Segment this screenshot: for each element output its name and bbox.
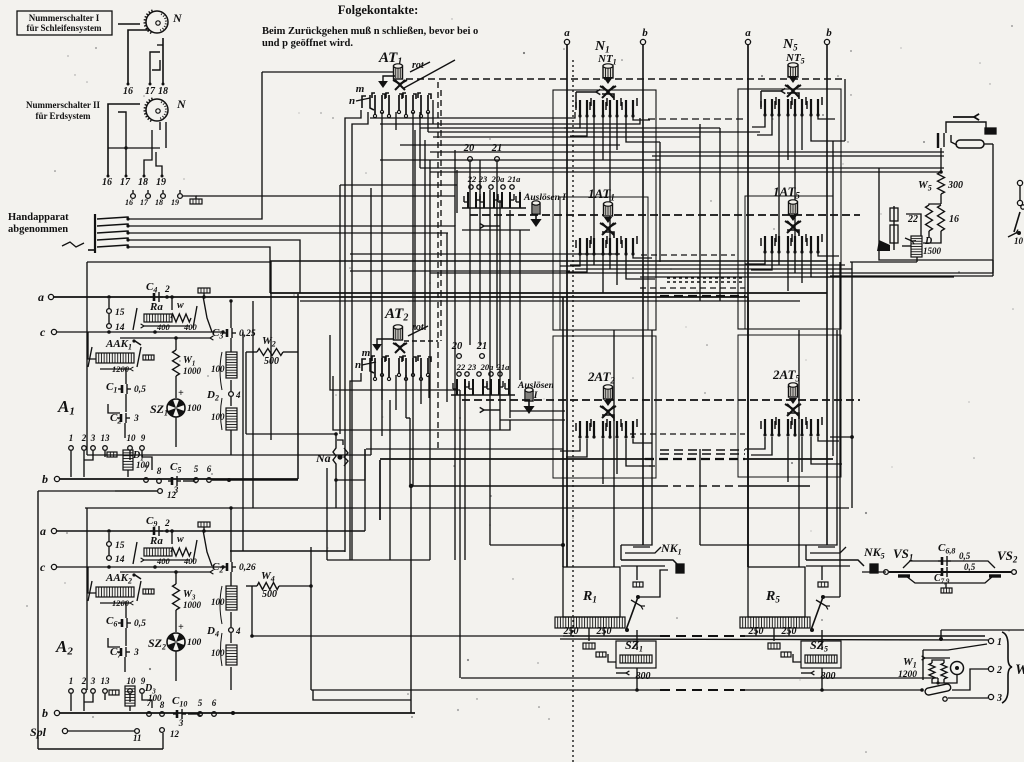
bus y690 — [311, 689, 922, 691]
relay D 1500 — [905, 236, 942, 257]
svg-text:W5: W5 — [918, 179, 932, 193]
outer frame left — [38, 491, 163, 749]
svg-text:AT2: AT2 — [384, 306, 408, 324]
labels 22 23 20a 21a (bank I) — [467, 174, 521, 184]
induction coil Ra — [133, 295, 198, 332]
svg-text:VS2: VS2 — [997, 548, 1018, 565]
label N5 — [782, 37, 798, 53]
svg-text:R1: R1 — [582, 589, 597, 605]
relay 1AT5 — [761, 184, 822, 254]
note text line1 — [262, 26, 478, 37]
svg-text:C3: C3 — [212, 327, 223, 341]
switch blade W — [920, 683, 988, 701]
svg-text:2AT5: 2AT5 — [772, 367, 800, 384]
svg-text:1AT5: 1AT5 — [773, 184, 800, 201]
box label Nummerschalter I — [17, 11, 112, 35]
contact bank N5 — [761, 93, 822, 117]
receiver box top — [879, 167, 944, 169]
svg-text:Ra: Ra — [149, 301, 163, 313]
label Ausloesen II — [517, 381, 554, 401]
terminals 20 21 (bank II) — [451, 341, 488, 358]
bus y261 — [270, 260, 827, 262]
rectifier D2 — [206, 352, 241, 455]
terminal a (A2) — [40, 524, 365, 538]
contact NK1 — [621, 541, 684, 587]
lamp SZ1 — [150, 388, 202, 447]
svg-text:b: b — [826, 27, 832, 39]
frame column 1 lower — [553, 336, 656, 478]
svg-text:n: n — [355, 359, 361, 371]
svg-text:N: N — [172, 11, 183, 25]
label VS2 — [997, 548, 1018, 565]
wire top right — [946, 122, 986, 133]
bus y271 — [350, 270, 570, 272]
svg-text:4: 4 — [235, 390, 241, 400]
label N1 — [594, 39, 610, 55]
svg-text:7: 7 — [147, 698, 152, 708]
svg-text:100: 100 — [187, 404, 202, 414]
vertical x243 — [242, 332, 244, 551]
svg-text:21a: 21a — [507, 174, 522, 184]
wire AT2 bank jog — [406, 417, 410, 419]
terminal labels 16 17 18 19 — [102, 177, 166, 188]
svg-text:5: 5 — [198, 698, 203, 708]
arrester upper branch — [903, 561, 995, 572]
wires below AT1 — [345, 100, 433, 560]
terminal a (N5) — [745, 27, 751, 45]
svg-text:18: 18 — [155, 198, 163, 207]
wire D4 to R y636 — [250, 634, 254, 638]
resistor 16 — [938, 205, 960, 231]
svg-text:A2: A2 — [55, 637, 73, 658]
terminal 3 — [988, 693, 1002, 704]
row b A1 with C5 — [144, 461, 298, 495]
svg-text:800: 800 — [821, 671, 836, 682]
vertical x852 — [830, 262, 854, 508]
dashed bus y215 — [470, 214, 860, 216]
coil AT1 — [394, 64, 403, 79]
vertical x465 — [464, 390, 466, 560]
terminal c (A2) — [40, 560, 223, 574]
arrester caps — [938, 556, 952, 593]
relay R1 box — [563, 567, 620, 617]
svg-text:C1: C1 — [106, 381, 117, 395]
svg-text:w: w — [177, 300, 184, 311]
wire R1 blade right — [638, 570, 668, 597]
svg-text:2AT2: 2AT2 — [587, 369, 615, 386]
bus y277 right — [640, 276, 954, 278]
vertical x252 to R bus — [251, 586, 253, 636]
dashed y119 segment — [648, 118, 745, 120]
svg-text:12: 12 — [167, 490, 177, 500]
arrow left bank II — [480, 407, 500, 412]
svg-text:Nummerschalter II: Nummerschalter II — [26, 100, 101, 110]
terminal b (N1) — [640, 27, 648, 45]
svg-text:12: 12 — [170, 729, 180, 739]
svg-text:C9: C9 — [146, 515, 157, 529]
label Handapparat — [8, 212, 69, 235]
svg-text:NK1: NK1 — [660, 541, 682, 557]
wire W4-R5 y636 — [252, 635, 563, 637]
bus y678 — [461, 678, 938, 683]
svg-text:1500: 1500 — [923, 246, 942, 256]
lamp SZ2 — [148, 622, 202, 681]
svg-text:10: 10 — [127, 433, 137, 443]
wires terminal row A2 — [71, 694, 152, 711]
wire terminal 2 — [952, 669, 988, 690]
svg-text:m: m — [362, 347, 371, 359]
svg-text:W4: W4 — [261, 570, 275, 584]
labels 22 23 20a 21a (bank II) — [456, 362, 510, 372]
arrow AT2 left — [372, 339, 393, 351]
svg-text:für Erdsystem: für Erdsystem — [35, 111, 91, 121]
frame column 5 lower — [738, 335, 841, 477]
contact X AT1 — [393, 80, 407, 90]
vertical x455 lower — [454, 340, 456, 560]
svg-text:7: 7 — [144, 464, 149, 474]
bus y560 — [327, 559, 430, 561]
svg-text:Auslösen: Auslösen — [517, 381, 554, 391]
blade terminal 1 — [923, 644, 987, 650]
vertical x311 — [310, 547, 312, 690]
rectifier D1 — [107, 450, 150, 477]
contact arm right of Ra — [198, 288, 212, 332]
bus y254 — [350, 253, 620, 255]
svg-text:22: 22 — [907, 214, 918, 225]
bus pair y168 — [420, 168, 940, 172]
vertical x833 — [832, 141, 834, 456]
svg-text:14: 14 — [115, 555, 125, 565]
svg-text:C6,8: C6,8 — [938, 542, 955, 556]
svg-text:W2: W2 — [262, 335, 276, 349]
svg-text:C6: C6 — [106, 615, 117, 629]
bus y508 — [85, 507, 849, 509]
svg-text:1000: 1000 — [183, 366, 202, 376]
capacitor C2 (A1) — [108, 404, 139, 438]
svg-text:19: 19 — [156, 177, 166, 188]
stems 2AT2 — [560, 439, 655, 484]
svg-text:100: 100 — [211, 648, 225, 658]
frame column 5b — [745, 196, 833, 329]
bell — [951, 662, 964, 675]
wire hook top to coil — [262, 71, 393, 73]
winding R5 — [740, 617, 810, 649]
wire 15-14 (A2) — [107, 529, 111, 556]
dashed thick y296 — [660, 295, 745, 297]
dashed bus y400 — [462, 399, 860, 401]
svg-text:4: 4 — [235, 626, 241, 636]
terminal Spl — [30, 725, 180, 743]
coil N1 — [603, 64, 613, 78]
svg-text:b: b — [642, 27, 648, 39]
hook arrow N5 — [761, 88, 785, 107]
bus y185 — [340, 184, 457, 186]
svg-text:18: 18 — [138, 177, 148, 188]
circle 15 (A2) — [107, 541, 125, 551]
svg-text:m: m — [356, 83, 365, 95]
capacitor C9 — [146, 515, 170, 536]
bus a-line y297 — [53, 296, 748, 298]
svg-text:3: 3 — [133, 648, 139, 658]
svg-text:1: 1 — [69, 676, 74, 686]
frame column 5 — [738, 89, 841, 329]
wire y276 to box — [830, 275, 993, 277]
vertical x412 — [410, 486, 412, 713]
svg-text:abgenommen: abgenommen — [8, 224, 68, 235]
svg-text:20a: 20a — [491, 174, 506, 184]
capacitor C1 — [106, 367, 146, 412]
capacitor C4 — [146, 281, 170, 302]
svg-text:16: 16 — [949, 214, 959, 225]
svg-text:SZ5: SZ5 — [810, 638, 828, 654]
wire right edge — [1019, 186, 1021, 201]
wire VS left — [862, 571, 886, 573]
relay AAK1 — [88, 338, 154, 374]
vertical x700 upper — [699, 124, 701, 301]
svg-text:Na: Na — [315, 451, 331, 465]
coil AT2 — [394, 325, 403, 340]
wire AAK1 to left — [88, 332, 96, 359]
dial N (Nummerschalter I) — [144, 10, 183, 34]
contact bank AT2 — [362, 356, 431, 381]
svg-text:13: 13 — [101, 676, 111, 686]
svg-text:100: 100 — [211, 364, 225, 374]
svg-text:100: 100 — [187, 638, 202, 648]
bracket W — [1002, 632, 1024, 703]
terminal 2 — [988, 665, 1002, 676]
terminal b (A2) — [42, 706, 415, 720]
svg-text:R5: R5 — [765, 589, 780, 605]
label rot (AT1) — [404, 60, 455, 88]
svg-text:C2: C2 — [110, 412, 121, 426]
vertical x365 Na-a2 — [364, 449, 366, 531]
label AT2 — [384, 306, 408, 324]
svg-text:21a: 21a — [496, 362, 511, 372]
contact X N5 — [785, 85, 801, 97]
wire c junction (A2) — [107, 565, 213, 574]
svg-text:16: 16 — [102, 177, 112, 188]
heading Folgekontakte — [338, 3, 419, 17]
svg-text:500: 500 — [264, 356, 279, 367]
corner x270 — [269, 261, 271, 293]
terminal a (N1) — [564, 27, 570, 45]
vertical x840 — [839, 262, 841, 597]
terminal c (A1) — [40, 325, 223, 339]
svg-text:Beim Zurückgehen muß n schließ: Beim Zurückgehen muß n schließen, bevor … — [262, 26, 478, 37]
svg-text:23: 23 — [478, 174, 488, 184]
bus y293 thick — [270, 292, 827, 294]
contact X N1 — [600, 86, 616, 98]
bank II out y411 — [510, 410, 565, 412]
dashed y288 — [640, 287, 745, 289]
svg-text:1: 1 — [69, 433, 74, 443]
svg-text:und p geöffnet wird.: und p geöffnet wird. — [262, 38, 353, 49]
dashed y486 mid — [660, 485, 745, 487]
relay SZ1 800 — [596, 630, 656, 692]
box receiver — [879, 168, 993, 260]
svg-text:W1: W1 — [903, 656, 917, 670]
vertical x271 A1 — [270, 261, 272, 440]
box around AT2 — [330, 335, 460, 390]
svg-text:13: 13 — [101, 433, 111, 443]
svg-text:11: 11 — [133, 733, 142, 743]
bus y160 — [380, 159, 660, 161]
svg-text:N5: N5 — [782, 37, 798, 53]
capsule (receiver cartridge) — [956, 140, 993, 148]
terminal b (A1) — [42, 472, 298, 486]
resistor W3 1000 — [173, 570, 202, 632]
wire AAK2 to left — [88, 567, 96, 593]
arrow top right — [953, 114, 979, 120]
label Nummerschalter II — [26, 100, 101, 121]
relay 1AT1 — [576, 186, 637, 256]
svg-text:2: 2 — [164, 285, 170, 295]
svg-text:D4: D4 — [206, 625, 219, 639]
svg-text:20: 20 — [451, 341, 463, 352]
terminal row A1 — [69, 433, 146, 450]
rectifier D4 — [206, 586, 241, 690]
svg-text:17: 17 — [140, 198, 149, 207]
vertical x720 — [719, 128, 721, 301]
label n — [349, 95, 370, 107]
svg-text:C10: C10 — [172, 695, 187, 709]
svg-text:1000: 1000 — [183, 600, 202, 610]
svg-text:b: b — [42, 706, 48, 720]
hook switch — [62, 214, 130, 253]
arrester lower branch — [906, 573, 993, 586]
wire under resistors — [923, 231, 941, 243]
coil Ausloesen I — [532, 201, 540, 214]
arrow AT1 — [378, 76, 395, 88]
terminal row 16-19 circles — [125, 190, 202, 207]
svg-text:0,5: 0,5 — [134, 385, 146, 395]
bus a5 vertical — [747, 45, 749, 567]
capacitor C6 — [106, 601, 146, 646]
wire bell down — [944, 675, 957, 683]
box bank I — [457, 170, 530, 230]
arrester main line — [884, 570, 1017, 575]
bus wires top band — [196, 112, 760, 196]
blade R5 — [810, 595, 830, 632]
resistor W1 1000 — [173, 336, 202, 398]
wire c junction — [107, 330, 213, 340]
svg-text:20a: 20a — [480, 362, 495, 372]
hook arrow N1 — [576, 89, 600, 108]
svg-text:15: 15 — [115, 541, 125, 551]
dashed stub AT2 — [404, 340, 438, 342]
frame column 1b — [560, 197, 648, 330]
circles bank I — [469, 185, 514, 189]
earpiece — [877, 206, 898, 251]
vertical x327 — [326, 468, 328, 560]
relay AAK2 — [88, 572, 154, 608]
bus y486 thick — [409, 484, 810, 488]
blade R1 — [625, 595, 645, 632]
svg-text:10: 10 — [127, 676, 137, 686]
svg-text:C5: C5 — [170, 461, 181, 475]
bus y434 Na — [246, 352, 337, 434]
svg-text:400: 400 — [183, 556, 198, 566]
svg-text:0,5: 0,5 — [964, 562, 976, 572]
wire 21 down — [496, 162, 498, 368]
component Na — [315, 432, 348, 482]
relay R5 box — [748, 567, 805, 617]
svg-text:SZ1: SZ1 — [625, 638, 643, 654]
bus a1 vertical — [566, 45, 568, 567]
label m — [356, 83, 365, 95]
svg-text:N: N — [176, 97, 187, 111]
frame column 1 — [553, 90, 656, 330]
terminal b (N5) — [824, 27, 832, 45]
box A2 left edge — [86, 508, 88, 690]
svg-text:2: 2 — [996, 665, 1002, 676]
svg-text:0,5: 0,5 — [959, 551, 971, 561]
dial N (Nummerschalter II) — [144, 97, 187, 122]
svg-text:VS1: VS1 — [893, 546, 913, 563]
dotted vertical fold — [572, 60, 574, 762]
label NT1 — [597, 53, 617, 67]
svg-text:22: 22 — [467, 174, 477, 184]
small rect terminal — [985, 128, 996, 134]
svg-text:+: + — [178, 622, 184, 633]
svg-text:16: 16 — [123, 86, 133, 97]
label NT5 — [785, 52, 805, 66]
svg-text:Nummerschalter I: Nummerschalter I — [29, 13, 100, 23]
svg-text:10: 10 — [1014, 236, 1024, 246]
capacitor C7 (A2) — [108, 638, 139, 672]
bus y301 — [300, 300, 800, 302]
svg-text:19: 19 — [171, 198, 179, 207]
arrow Ausloesen II — [523, 401, 534, 414]
svg-text:500: 500 — [262, 589, 277, 600]
svg-text:100: 100 — [211, 412, 225, 422]
dotted pair y450 — [660, 450, 745, 454]
box bank II — [333, 360, 510, 430]
wire R5 blade right — [823, 570, 858, 597]
svg-text:3: 3 — [90, 676, 96, 686]
bus y551 — [230, 550, 345, 552]
svg-text:1: 1 — [997, 637, 1002, 648]
svg-text:a: a — [564, 27, 570, 39]
label C68 — [938, 542, 971, 561]
svg-text:n: n — [349, 95, 355, 107]
bus y269 right — [575, 268, 852, 270]
contact arm right of Ra (A2) — [198, 522, 212, 566]
wire y639 terminal 1 — [560, 637, 1002, 648]
dashed bus y79 — [406, 78, 845, 80]
wires below AT2 — [350, 373, 429, 560]
wire x993 down — [992, 144, 994, 273]
terminal circles right edge — [1017, 180, 1022, 205]
bus y449 — [366, 448, 563, 450]
capacitor C3 — [212, 299, 256, 352]
svg-text:15: 15 — [115, 308, 125, 318]
winding R1 — [555, 617, 625, 649]
note text line2 — [262, 38, 353, 49]
wire Na bottom — [336, 449, 365, 480]
svg-text:21: 21 — [476, 341, 488, 352]
vertical x253 — [252, 301, 254, 508]
svg-text:22: 22 — [456, 362, 466, 372]
svg-text:5: 5 — [194, 464, 199, 474]
resistor W5 300 — [918, 148, 963, 204]
svg-text:a: a — [745, 27, 751, 39]
arrow left bank I — [480, 223, 500, 228]
svg-text:6: 6 — [207, 464, 212, 474]
rectifier D3 — [109, 683, 162, 711]
label A1 — [57, 397, 75, 418]
dashed y690 segment — [660, 689, 745, 691]
